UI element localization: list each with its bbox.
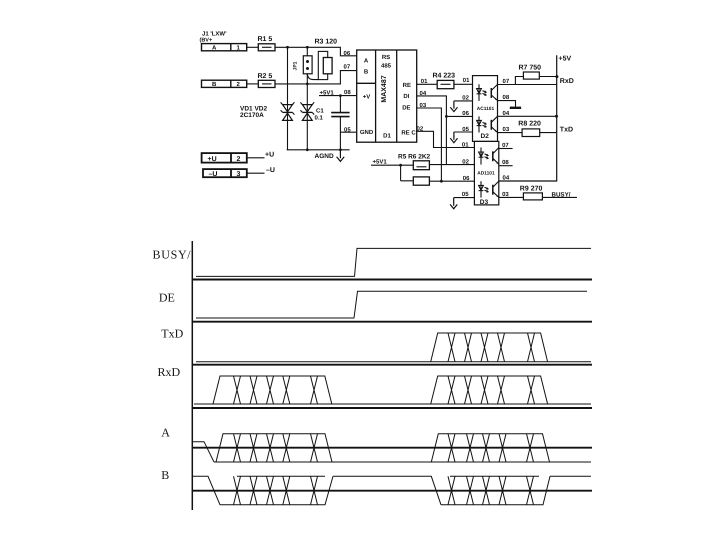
signal TxD low line <box>196 361 591 363</box>
svg-text:2C170A: 2C170A <box>240 112 264 119</box>
svg-text:AC1101: AC1101 <box>477 106 495 112</box>
connector +U <box>202 152 275 163</box>
svg-text:DE: DE <box>159 291 175 305</box>
svg-text:02: 02 <box>417 126 424 133</box>
ground arrow at D2 pin 02 <box>450 94 472 111</box>
svg-text:+V: +V <box>363 93 371 100</box>
optocoupler D2 box <box>473 76 498 142</box>
resistor R5 <box>413 158 474 169</box>
svg-text:B: B <box>364 69 369 76</box>
svg-text:R2 5: R2 5 <box>258 73 273 80</box>
svg-text:05: 05 <box>462 126 469 133</box>
resistor R1 <box>247 36 275 51</box>
svg-text:A: A <box>364 58 369 65</box>
jumper JP1 <box>293 56 313 74</box>
connector J1 pin A 1 <box>202 44 247 52</box>
svg-text:+U: +U <box>265 152 274 159</box>
svg-text:04: 04 <box>503 110 510 117</box>
svg-text:0.1: 0.1 <box>315 115 324 122</box>
svg-text:485: 485 <box>381 63 392 70</box>
svg-text:06: 06 <box>463 175 470 182</box>
svg-text:R8 220: R8 220 <box>518 120 541 127</box>
svg-text:TxD: TxD <box>161 327 183 341</box>
signal B center line <box>192 490 592 492</box>
svg-text:BUSY/: BUSY/ <box>552 191 571 198</box>
signal RxD data burst 2 <box>431 376 548 404</box>
svg-text:R3 120: R3 120 <box>315 39 338 46</box>
svg-text:–U: –U <box>266 167 275 174</box>
svg-text:AD1101: AD1101 <box>477 171 495 177</box>
svg-text:RxD: RxD <box>158 365 181 379</box>
svg-text:GND: GND <box>360 129 374 136</box>
stub D3 pin 08 <box>499 159 513 166</box>
svg-text:08: 08 <box>502 159 509 166</box>
svg-text:TxD: TxD <box>560 127 573 134</box>
svg-text:J1 'LXW': J1 'LXW' <box>202 31 227 38</box>
resistor R3 with loop <box>307 39 337 80</box>
svg-text:02: 02 <box>462 94 469 101</box>
svg-text:D1: D1 <box>383 132 391 139</box>
signal BUSY/ baseline <box>192 279 592 281</box>
optocoupler D3 channel1 LED and transistor <box>479 148 499 165</box>
svg-text:B: B <box>161 468 169 482</box>
signal TxD data burst <box>431 333 548 362</box>
svg-text:MAX487: MAX487 <box>381 75 388 102</box>
svg-text:07: 07 <box>344 63 351 70</box>
svg-text:R7 750: R7 750 <box>519 64 542 71</box>
svg-text:BUSY/: BUSY/ <box>153 248 192 262</box>
svg-text:RE C: RE C <box>401 130 416 137</box>
svg-text:DE: DE <box>402 104 410 111</box>
timing axis <box>191 241 193 510</box>
svg-text:02: 02 <box>462 158 469 165</box>
stub D3 pin 07 <box>499 142 513 149</box>
optocoupler D2 channel2 LED and transistor <box>477 116 498 132</box>
resistor R2 <box>247 73 275 88</box>
svg-text:R9 270: R9 270 <box>520 185 543 192</box>
signal RxD baseline <box>192 407 592 409</box>
svg-text:08: 08 <box>503 94 510 101</box>
svg-text:RxD: RxD <box>560 78 574 85</box>
signal TxD baseline <box>192 364 592 366</box>
svg-text:(BV+: (BV+ <box>200 38 213 44</box>
ground arrow at D3 pin 05 <box>450 191 474 209</box>
connector -U <box>203 167 275 178</box>
svg-text:+U: +U <box>208 156 217 163</box>
ground AGND <box>287 148 350 161</box>
diode VD1 <box>281 47 295 150</box>
net RE <box>417 126 475 149</box>
ground arrow at D2 pin 05 <box>450 126 472 143</box>
svg-text:03: 03 <box>420 102 427 109</box>
svg-text:RS: RS <box>382 54 390 61</box>
svg-text:04: 04 <box>420 90 427 97</box>
svg-text:B: B <box>212 81 217 88</box>
wire net A to pin 06 <box>275 46 357 57</box>
svg-text:+5V: +5V <box>559 55 572 62</box>
net TxD with resistor R8 <box>498 120 574 136</box>
svg-text:04: 04 <box>503 175 510 182</box>
optocoupler D2 channel1 LED and transistor <box>477 84 498 101</box>
wire net B to pin 07 <box>275 63 357 85</box>
svg-text:D2: D2 <box>481 133 490 140</box>
optocoupler D3 box <box>474 141 498 205</box>
svg-text:01: 01 <box>462 141 469 148</box>
net +5V rail <box>498 55 572 181</box>
signal A waveform <box>193 434 591 462</box>
net +5V1 to pin 08 <box>319 89 357 97</box>
IC U1 MAX487 <box>357 50 417 142</box>
svg-text:A: A <box>161 426 170 440</box>
svg-text:DI: DI <box>403 93 409 100</box>
signal DE baseline <box>192 321 592 323</box>
wire GND pin 05 <box>340 127 356 134</box>
svg-text:AGND: AGND <box>315 153 334 160</box>
svg-text:D3: D3 <box>480 199 489 206</box>
diode VD2 <box>300 47 314 150</box>
svg-text:06: 06 <box>344 50 351 57</box>
svg-text:07: 07 <box>502 142 509 149</box>
svg-text:A: A <box>212 45 217 52</box>
net BUSY with resistor R9 <box>499 185 577 200</box>
svg-text:01: 01 <box>463 77 470 84</box>
signal BUSY/ waveform <box>196 248 591 276</box>
svg-text:08: 08 <box>344 89 351 96</box>
svg-text:JP1: JP1 <box>293 61 299 70</box>
ground bar at D2 pin 08 <box>498 94 522 108</box>
svg-text:C1: C1 <box>316 107 324 114</box>
svg-text:R1 5: R1 5 <box>258 36 273 43</box>
svg-text:2: 2 <box>237 156 241 163</box>
resistor R6 <box>413 175 474 185</box>
optocoupler D3 channel2 LED and transistor <box>479 181 499 198</box>
connector J1 title text <box>200 31 228 44</box>
svg-text:06: 06 <box>462 110 469 117</box>
svg-text:07: 07 <box>503 78 510 85</box>
svg-text:RE: RE <box>403 82 411 89</box>
label VD1 VD2 2C170A <box>240 106 267 120</box>
signal RxD data burst 1 <box>213 376 332 404</box>
net +5V1 second with resistors R5 R6 <box>371 153 431 180</box>
signal RxD low line <box>194 403 591 405</box>
svg-text:R4 223: R4 223 <box>433 72 456 79</box>
net RxD with resistor R7 <box>498 64 574 84</box>
svg-text:–U: –U <box>209 171 218 178</box>
svg-text:R5 R6 2K2: R5 R6 2K2 <box>398 153 431 160</box>
svg-text:01: 01 <box>421 78 428 85</box>
svg-text:03: 03 <box>503 126 510 133</box>
svg-text:03: 03 <box>502 191 509 198</box>
svg-text:05: 05 <box>344 127 351 134</box>
signal DE waveform <box>196 291 587 318</box>
svg-text:05: 05 <box>462 191 469 198</box>
capacitor C1 <box>315 96 350 150</box>
net DI <box>417 90 473 165</box>
net RO with resistor R4 <box>417 72 473 88</box>
connector J1 pin B 2 <box>202 80 247 88</box>
svg-text:+5V1: +5V1 <box>373 158 388 165</box>
net DE <box>417 102 443 183</box>
signal A center line <box>192 447 592 449</box>
svg-text:3: 3 <box>237 171 241 178</box>
signal B waveform <box>193 476 591 505</box>
